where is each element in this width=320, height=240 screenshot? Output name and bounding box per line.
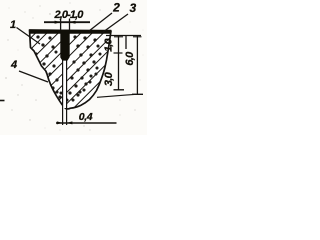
scan artifact mark at left edge — [0, 100, 5, 102]
svg-text:1,0: 1,0 — [103, 38, 115, 51]
leader 2 — [89, 13, 112, 31]
dimension line V3 (6,0) — [136, 36, 138, 95]
dimension line V2 (1,0 stub) — [125, 36, 127, 50]
V1 bottom serif at 3,0 — [114, 89, 125, 91]
top right arrowhead — [70, 21, 76, 24]
bottom right arrowhead — [67, 121, 73, 124]
gap channel below insert — [62, 58, 66, 108]
body of joint (hatched section) — [30, 30, 112, 109]
svg-text:4: 4 — [10, 59, 17, 71]
channel right edge / extension line — [66, 59, 68, 125]
svg-text:2: 2 — [112, 1, 120, 15]
V3 bottom serif — [132, 93, 143, 95]
top left arrowhead — [55, 21, 61, 24]
svg-text:6,0: 6,0 — [124, 51, 136, 66]
svg-text:3: 3 — [129, 1, 136, 15]
top extension line right — [69, 19, 71, 31]
leader 4 — [19, 71, 48, 82]
leader 3 — [101, 14, 128, 34]
svg-text:0,4: 0,4 — [79, 111, 93, 123]
scan noise speckles — [5, 2, 143, 130]
V1 top serif — [114, 36, 123, 38]
top extension line left — [60, 19, 62, 31]
right top extension line — [106, 35, 141, 37]
dimension line V1 (1,0 / 3,0 chain) — [118, 36, 120, 91]
dots texture in section — [34, 35, 101, 101]
top clad layer (thick band, item 2/3) — [30, 30, 112, 34]
bottom dimension line — [56, 122, 117, 124]
leader 1 — [17, 28, 41, 45]
channel left edge / extension line — [62, 59, 64, 125]
top dimension line — [44, 21, 90, 23]
bottom left arrowhead — [57, 121, 63, 124]
svg-text:3,0: 3,0 — [103, 71, 115, 86]
V1 mid tick at 1,0 — [114, 52, 123, 54]
solder insert strip (solid black) — [60, 30, 69, 61]
body outline stroke — [30, 30, 112, 109]
extension line to 6,0 bottom — [97, 94, 136, 97]
svg-text:1: 1 — [10, 19, 16, 31]
V3 top serif — [133, 36, 142, 38]
svg-text:2,0-1,0: 2,0-1,0 — [54, 9, 85, 21]
